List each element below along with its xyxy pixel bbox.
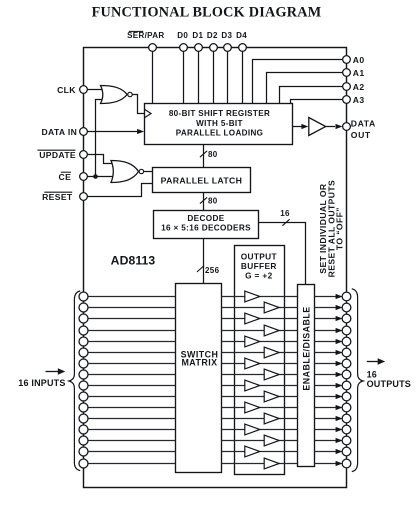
terminal A1: [343, 69, 351, 77]
wire switch matrix row 15 to output buffer: [222, 463, 265, 465]
terminal D2: [210, 44, 218, 52]
terminal input IN02: [79, 314, 88, 323]
wire switch matrix row 0 to output buffer: [222, 296, 245, 298]
wire CE to NOR gate U2: [84, 176, 116, 178]
svg-text:OUTPUTS: OUTPUTS: [367, 379, 411, 389]
terminal output OUT00: [342, 292, 351, 301]
terminal input IN15: [79, 459, 88, 468]
terminal input IN03: [79, 326, 88, 335]
svg-text:A0: A0: [353, 55, 365, 65]
terminal output OUT02: [342, 314, 351, 323]
wire A0 to shift register: [253, 60, 343, 104]
wire switch matrix row 3 to output buffer: [222, 330, 265, 332]
svg-text:A1: A1: [353, 68, 365, 78]
wire D2 to shift register: [213, 48, 215, 104]
wire A2 to shift register: [280, 87, 343, 104]
buffer amplifier row 12 (G=+2): [245, 424, 260, 435]
terminal input IN08: [79, 381, 88, 390]
svg-text:D4: D4: [236, 31, 247, 40]
terminal A3: [343, 96, 351, 104]
buffer amplifier row 13 (G=+2): [264, 435, 279, 446]
terminal input IN11: [79, 414, 88, 423]
wire NOR U2 output to parallel latch: [143, 171, 152, 173]
wire input IN10 to switch matrix: [84, 407, 176, 409]
wire SER/PAR to shift register: [152, 48, 154, 104]
buffer amplifier row 10 (G=+2): [245, 402, 260, 413]
wire CLK to NOR gate U1: [84, 89, 107, 91]
terminal input IN05: [79, 348, 88, 357]
svg-text:TO “OFF”: TO “OFF”: [335, 207, 345, 250]
terminal SER/PAR: [149, 44, 157, 52]
wire switch matrix row 4 to output buffer: [222, 341, 245, 343]
terminal input IN01: [79, 303, 88, 312]
junction dot CE branch: [93, 174, 98, 179]
bus 80 parallel latch to decode: [203, 193, 205, 211]
svg-text:ENABLE/DISABLE: ENABLE/DISABLE: [301, 306, 311, 390]
terminal output OUT12: [342, 425, 351, 434]
wire input IN07 to switch matrix: [84, 374, 176, 376]
terminal output OUT11: [342, 414, 351, 423]
terminal D4: [239, 44, 247, 52]
wire switch matrix row 5 to output buffer: [222, 352, 265, 354]
block 80-bit shift register: [145, 104, 293, 145]
terminal output OUT05: [342, 348, 351, 357]
terminal D1: [195, 44, 203, 52]
wire input IN05 to switch matrix: [84, 352, 176, 354]
svg-text:OUT: OUT: [351, 130, 371, 140]
block parallel latch: [153, 168, 251, 193]
terminal RESET: [80, 193, 88, 201]
svg-text:80-BIT SHIFT REGISTER: 80-BIT SHIFT REGISTER: [169, 109, 270, 118]
wire enable/disable to output OUT11: [315, 418, 337, 420]
svg-text:CLK: CLK: [57, 85, 76, 95]
terminal input IN14: [79, 447, 88, 456]
svg-text:OUTPUT: OUTPUT: [241, 251, 277, 261]
terminal output OUT06: [342, 359, 351, 368]
buffer amplifier row 6 (G=+2): [245, 358, 260, 369]
wire enable/disable to output OUT12: [315, 429, 337, 431]
buffer amplifier row 3 (G=+2): [264, 325, 279, 336]
wire switch matrix row 7 to output buffer: [222, 374, 265, 376]
wire enable/disable to output OUT14: [315, 451, 337, 453]
svg-text:MATRIX: MATRIX: [181, 358, 217, 368]
wire enable/disable to output OUT08: [315, 385, 337, 387]
block decode 16x5:16 decoders: [154, 211, 259, 239]
svg-text:16: 16: [367, 370, 377, 380]
wire enable/disable to output OUT05: [315, 352, 337, 354]
wire D0 to shift register: [183, 48, 185, 104]
wire enable/disable to output OUT13: [315, 440, 337, 442]
svg-text:D0: D0: [177, 31, 188, 40]
clock input wedge on shift register: [145, 109, 152, 118]
wire CE branch up to NOR gate U1: [96, 100, 107, 177]
terminal DATA IN: [80, 128, 88, 136]
wire enable/disable to output OUT00: [315, 296, 337, 298]
bus 256 decode to switch matrix: [203, 239, 205, 284]
svg-text:A2: A2: [353, 82, 365, 92]
svg-text:WITH 5-BIT: WITH 5-BIT: [196, 119, 243, 128]
wire D3 to shift register: [227, 48, 229, 104]
terminal output OUT07: [342, 370, 351, 379]
wire UPDATE to NOR gate U2: [84, 155, 115, 164]
brace for 16 inputs: [69, 291, 80, 471]
terminal output OUT14: [342, 447, 351, 456]
terminal A0: [343, 56, 351, 64]
buffer amplifier row 9 (G=+2): [264, 391, 279, 402]
wire enable/disable to output OUT10: [315, 407, 337, 409]
wire shift register to output driver: [293, 126, 302, 128]
wire enable/disable to output OUT15: [315, 463, 337, 465]
terminal input IN10: [79, 403, 88, 412]
wire switch matrix row 9 to output buffer: [222, 396, 265, 398]
terminal D3: [224, 44, 232, 52]
svg-text:A3: A3: [353, 95, 365, 105]
terminal input IN09: [79, 392, 88, 401]
wire input IN13 to switch matrix: [84, 440, 176, 442]
wire enable/disable to output OUT02: [315, 318, 337, 320]
svg-text:80: 80: [208, 197, 218, 206]
terminal output OUT15: [342, 459, 351, 468]
terminal output OUT08: [342, 381, 351, 390]
wire switch matrix row 10 to output buffer: [222, 407, 245, 409]
terminal output OUT09: [342, 392, 351, 401]
svg-text:UPDATE: UPDATE: [39, 150, 76, 160]
svg-text:G = +2: G = +2: [245, 270, 273, 280]
terminal UPDATE: [80, 151, 88, 159]
wire A1 to shift register: [267, 73, 343, 104]
svg-text:SER/PAR: SER/PAR: [127, 31, 164, 40]
svg-text:CE: CE: [59, 172, 72, 182]
svg-text:80: 80: [208, 150, 218, 159]
NOR gate U2 (update gating): [111, 161, 139, 183]
terminal input IN12: [79, 425, 88, 434]
wire switch matrix row 1 to output buffer: [222, 307, 265, 309]
wire input IN11 to switch matrix: [84, 418, 176, 420]
wire switch matrix row 8 to output buffer: [222, 385, 245, 387]
svg-text:DATA IN: DATA IN: [41, 127, 77, 137]
wire D1 to shift register: [198, 48, 200, 104]
terminal input IN13: [79, 436, 88, 445]
bus 16 decode to enable/disable: [259, 223, 306, 285]
buffer amplifier row 14 (G=+2): [245, 446, 260, 457]
wire enable/disable to output OUT07: [315, 374, 337, 376]
wire enable/disable to output OUT09: [315, 396, 337, 398]
wire DATA IN to shift register: [84, 131, 141, 133]
outer boundary of AD8113: [84, 48, 347, 488]
wire driver to DATA OUT terminal: [326, 126, 335, 128]
wire switch matrix row 14 to output buffer: [222, 451, 245, 453]
block enable/disable: [298, 285, 315, 467]
terminal D0: [180, 44, 188, 52]
wire input IN03 to switch matrix: [84, 330, 176, 332]
wire input IN01 to switch matrix: [84, 307, 176, 309]
svg-text:BUFFER: BUFFER: [241, 261, 277, 271]
terminal output OUT04: [342, 337, 351, 346]
terminal output OUT03: [342, 326, 351, 335]
wire switch matrix row 2 to output buffer: [222, 318, 245, 320]
terminal output OUT13: [342, 436, 351, 445]
buffer amplifier row 0 (G=+2): [245, 291, 260, 302]
wire switch matrix row 11 to output buffer: [222, 418, 265, 420]
terminal output OUT01: [342, 303, 351, 312]
svg-text:PARALLEL LOADING: PARALLEL LOADING: [176, 128, 264, 137]
svg-text:16 × 5:16 DECODERS: 16 × 5:16 DECODERS: [161, 224, 251, 233]
wire A3 to shift register: [291, 100, 343, 104]
buffer amplifier row 2 (G=+2): [245, 313, 260, 324]
terminal input IN00: [79, 292, 88, 301]
wire enable/disable to output OUT06: [315, 363, 337, 365]
wire NOR U1 output to shift register clock: [132, 95, 145, 114]
wire RESET to parallel latch: [84, 184, 153, 197]
buffer amplifier row 11 (G=+2): [264, 413, 279, 424]
wire input IN08 to switch matrix: [84, 385, 176, 387]
arrow out of outputs: [367, 361, 379, 363]
buffer amplifier row 15 (G=+2): [264, 458, 279, 469]
buffer amplifier row 7 (G=+2): [264, 369, 279, 380]
wire input IN15 to switch matrix: [84, 463, 176, 465]
wire enable/disable to output OUT01: [315, 307, 337, 309]
terminal input IN06: [79, 359, 88, 368]
wire input IN00 to switch matrix: [84, 296, 176, 298]
wire input IN14 to switch matrix: [84, 451, 176, 453]
svg-text:RESET: RESET: [42, 192, 73, 202]
wire input IN12 to switch matrix: [84, 429, 176, 431]
buffer amplifier row 5 (G=+2): [264, 347, 279, 358]
svg-text:AD8113: AD8113: [111, 253, 156, 267]
NOR gate U1 (clock gating): [101, 86, 128, 104]
wire switch matrix row 12 to output buffer: [222, 429, 245, 431]
svg-text:FUNCTIONAL BLOCK DIAGRAM: FUNCTIONAL BLOCK DIAGRAM: [92, 5, 322, 21]
terminal CE: [80, 173, 88, 181]
buffer U3 (serial data out driver): [309, 118, 326, 136]
block output buffer G=+2: [235, 246, 285, 475]
arrow into inputs: [46, 371, 59, 373]
svg-text:D2: D2: [207, 31, 218, 40]
wire enable/disable to output OUT04: [315, 341, 337, 343]
terminal output OUT10: [342, 403, 351, 412]
svg-text:DATA: DATA: [351, 118, 376, 128]
terminal DATA OUT: [343, 123, 351, 131]
svg-text:256: 256: [205, 266, 220, 275]
block switch matrix: [176, 284, 222, 473]
wire switch matrix row 6 to output buffer: [222, 363, 245, 365]
svg-text:16 INPUTS: 16 INPUTS: [18, 378, 65, 388]
buffer amplifier row 4 (G=+2): [245, 336, 260, 347]
terminal CLK: [80, 86, 88, 94]
bus 80 shift register to parallel latch: [203, 145, 205, 168]
wire input IN02 to switch matrix: [84, 318, 176, 320]
wire input IN09 to switch matrix: [84, 396, 176, 398]
wire input IN04 to switch matrix: [84, 341, 176, 343]
svg-text:D3: D3: [221, 31, 232, 40]
terminal A2: [343, 83, 351, 91]
wire D4 to shift register: [242, 48, 244, 104]
svg-text:D1: D1: [192, 31, 203, 40]
buffer amplifier row 8 (G=+2): [245, 380, 260, 391]
wire switch matrix row 13 to output buffer: [222, 440, 265, 442]
svg-text:PARALLEL LATCH: PARALLEL LATCH: [161, 175, 243, 185]
buffer amplifier row 1 (G=+2): [264, 302, 279, 313]
svg-text:16: 16: [280, 209, 290, 218]
svg-text:DECODE: DECODE: [187, 214, 224, 223]
brace for 16 outputs: [352, 289, 363, 472]
wire enable/disable to output OUT03: [315, 330, 337, 332]
terminal input IN04: [79, 337, 88, 346]
terminal input IN07: [79, 370, 88, 379]
wire input IN06 to switch matrix: [84, 363, 176, 365]
